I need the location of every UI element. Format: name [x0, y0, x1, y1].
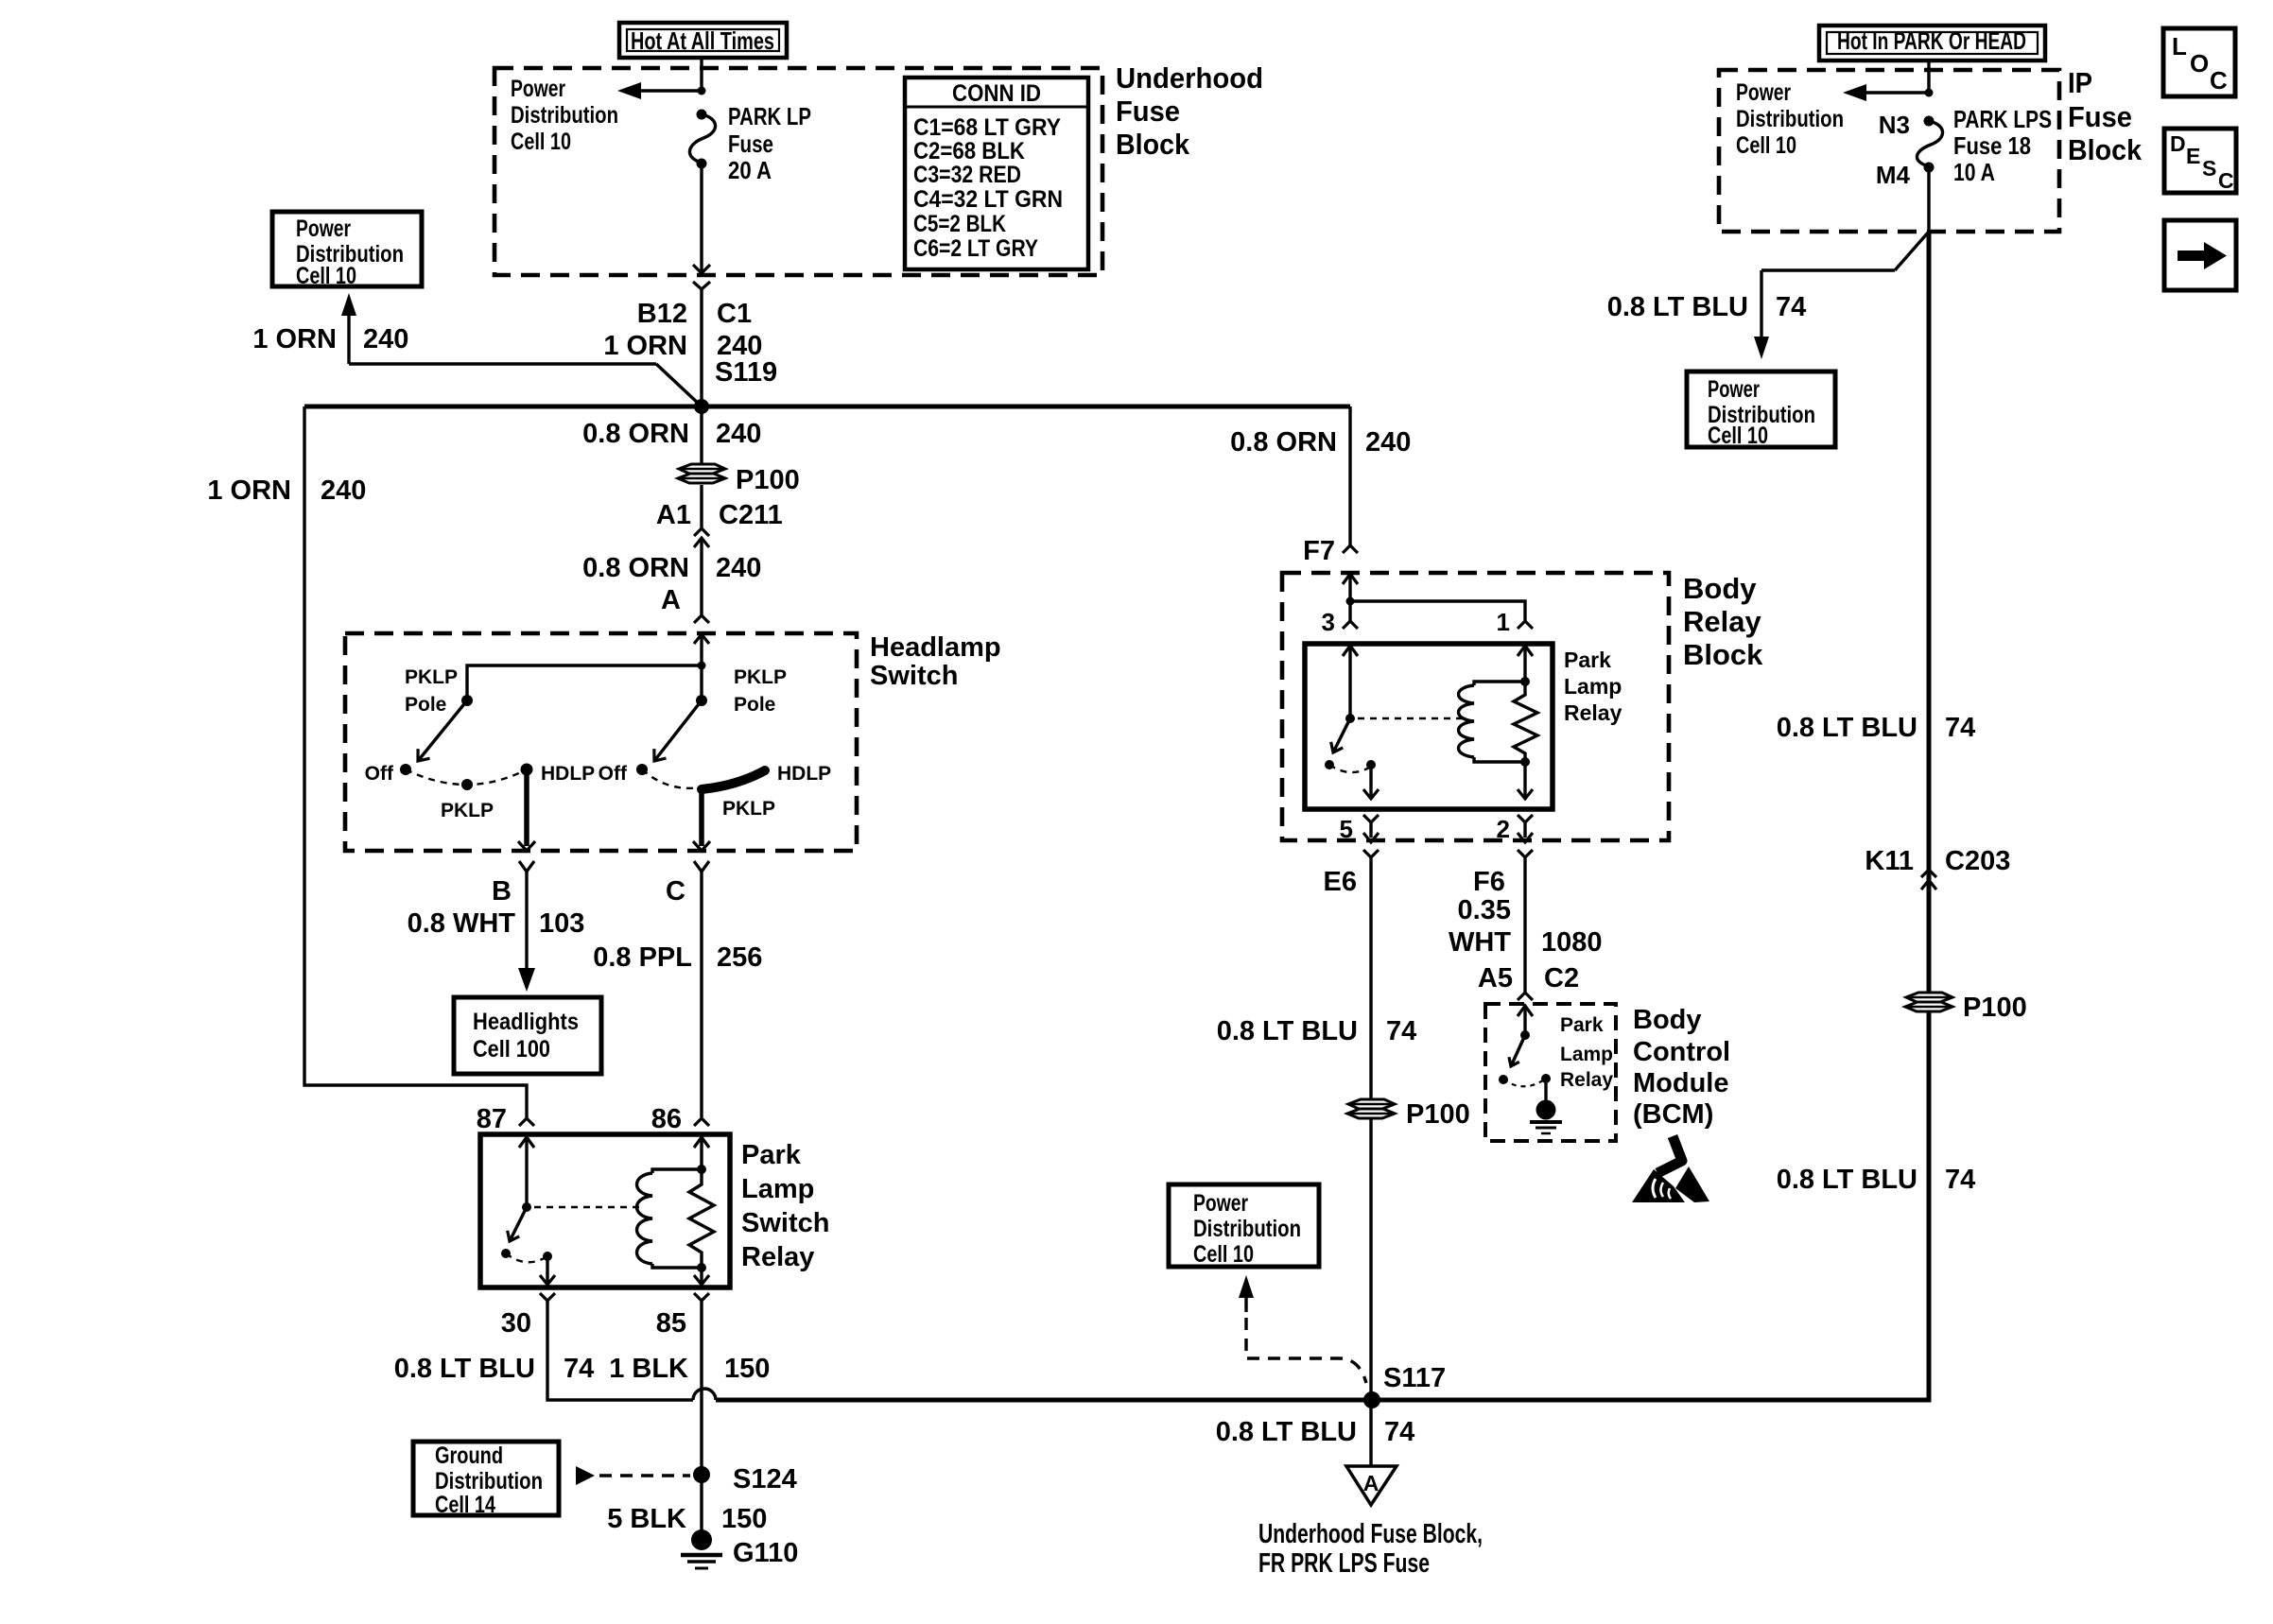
wire fuse to B12 exit	[700, 164, 703, 272]
svg-text:Power: Power	[1736, 79, 1791, 106]
pin arrow 2 inside relay	[1518, 789, 1533, 799]
label box "Hot At All Times"	[619, 23, 787, 58]
dashed arc right switch	[642, 769, 701, 788]
node Off contact (right)	[636, 764, 648, 775]
wire B12/C1 down to S119	[700, 289, 703, 406]
svg-text:Lamp: Lamp	[1564, 674, 1622, 699]
svg-text:K11: K11	[1865, 846, 1914, 876]
svg-text:103: 103	[539, 908, 584, 939]
svg-text:Power: Power	[1708, 376, 1760, 403]
pin fork 5	[1363, 815, 1379, 822]
wire label 0.8 LT BLU 74 (below S117)	[1216, 1417, 1415, 1447]
pin arrow 3 inside relay	[1343, 646, 1358, 656]
label Body Relay Block	[1683, 572, 1763, 671]
svg-text:A5: A5	[1478, 963, 1513, 993]
svg-text:Fuse: Fuse	[2068, 100, 2132, 133]
svg-text:Module: Module	[1633, 1068, 1729, 1098]
pin fork 30	[540, 1293, 555, 1301]
svg-text:M4: M4	[1876, 161, 1911, 189]
wire label 0.8 ORN 240 (second)	[582, 553, 761, 583]
svg-text:Underhood: Underhood	[1116, 61, 1263, 95]
svg-text:Control: Control	[1633, 1037, 1730, 1067]
node PKLP contact (left)	[461, 779, 473, 790]
ground (BCM internal)	[1530, 1100, 1562, 1134]
svg-text:Block: Block	[1683, 638, 1763, 671]
svg-text:P100: P100	[1963, 993, 2027, 1023]
pin arrow 1 inside relay	[1518, 646, 1533, 656]
switch blade PKLP selected (thick curve)	[702, 770, 765, 789]
wire B down to Headlights	[525, 872, 528, 970]
wire label 1 ORN 240 (left vertical)	[207, 475, 366, 506]
node right PKLP Pole dot	[696, 695, 707, 706]
pin fork F6	[1518, 850, 1533, 857]
box Power Distribution Cell 10 (right)	[1687, 371, 1835, 449]
node coil bottom junction (body relay)	[1520, 757, 1530, 767]
svg-text:10 A: 10 A	[1953, 158, 1995, 186]
pin arrow 5 inside relay	[1363, 789, 1379, 799]
note Underhood Fuse Block, FR PRK LPS Fuse	[1258, 1519, 1483, 1579]
wire to left pole	[467, 665, 702, 700]
node pole feed junction	[698, 662, 706, 670]
node junction at IP fuse feed	[1925, 89, 1934, 97]
svg-text:Cell 10: Cell 10	[1193, 1241, 1254, 1268]
svg-text:74: 74	[1945, 1165, 1975, 1195]
svg-text:Power: Power	[511, 76, 565, 102]
wire label 0.8 LT BLU 74 (right riser bottom)	[1777, 1165, 1976, 1195]
svg-text:PARK LP: PARK LP	[728, 102, 811, 130]
value label PARK LP Fuse 20 A	[728, 102, 811, 184]
svg-text:CONN ID: CONN ID	[952, 80, 1041, 107]
svg-text:2: 2	[1497, 815, 1510, 843]
svg-text:E: E	[2186, 144, 2200, 168]
wire HDLP contact down (selected, thick)	[524, 769, 529, 846]
pin fork B	[519, 861, 534, 872]
pin fork B12 below underhood box	[693, 282, 710, 289]
wire bus from S119 left and right	[304, 405, 1350, 409]
relay armature swing arm (body relay)	[1327, 718, 1350, 755]
svg-text:Relay: Relay	[1564, 700, 1622, 725]
dashed arc BCM contact	[1503, 1079, 1546, 1086]
svg-text:Block: Block	[2068, 133, 2143, 166]
wire label 0.8 ORN 240	[582, 419, 761, 449]
svg-text:P100: P100	[736, 465, 800, 495]
svg-text:Cell 10: Cell 10	[1736, 132, 1796, 159]
svg-text:C6=2 LT GRY: C6=2 LT GRY	[913, 235, 1038, 262]
svg-text:O: O	[2190, 49, 2209, 78]
svg-text:C5=2 BLK: C5=2 BLK	[913, 211, 1006, 237]
node BCM output contact	[1541, 1074, 1551, 1083]
node BCM contact left	[1499, 1075, 1508, 1084]
svg-text:PARK LPS: PARK LPS	[1953, 105, 2052, 133]
dashed arc relay contact (body relay)	[1329, 765, 1371, 772]
node S119 junction dot	[694, 399, 709, 414]
svg-text:C: C	[2218, 168, 2234, 193]
wire label 0.8 LT BLU 74 (E6)	[1217, 1016, 1417, 1046]
wire arrow to Power Distribution (IP)	[1843, 84, 1929, 101]
svg-text:N3: N3	[1879, 111, 1910, 139]
label box "Hot In PARK Or HEAD"	[1819, 26, 2045, 60]
svg-text:0.8 ORN: 0.8 ORN	[582, 553, 689, 583]
svg-text:C2=68 BLK: C2=68 BLK	[913, 138, 1025, 164]
svg-text:PKLP: PKLP	[441, 800, 494, 821]
svg-text:0.8 ORN: 0.8 ORN	[1230, 427, 1337, 458]
svg-text:Distribution: Distribution	[1193, 1216, 1301, 1242]
svg-text:Park: Park	[1560, 1014, 1604, 1036]
svg-text:Power: Power	[296, 216, 351, 242]
svg-text:A1: A1	[656, 500, 691, 530]
svg-text:74: 74	[1384, 1417, 1414, 1447]
text Power Distribution Cell 10 (IP)	[1736, 79, 1844, 159]
svg-text:Power: Power	[1193, 1190, 1248, 1217]
svg-text:74: 74	[1386, 1016, 1416, 1046]
node branch junction (pin3/pin1)	[1346, 597, 1355, 606]
box Ground Distribution Cell 14	[413, 1442, 559, 1518]
svg-text:A: A	[661, 585, 681, 615]
svg-text:1 ORN: 1 ORN	[603, 331, 687, 361]
dashed pointer S117 to Power Distribution	[1239, 1275, 1366, 1383]
svg-text:C: C	[666, 876, 685, 907]
connector C211 inline	[694, 528, 709, 547]
value label PARK LPS Fuse 18 10 A	[1953, 105, 2052, 186]
relay armature swing arm	[504, 1207, 527, 1244]
svg-text:S119: S119	[715, 357, 777, 388]
wire S119 down to P100	[700, 406, 703, 463]
svg-text:E6: E6	[1324, 867, 1357, 897]
connector A into headlamp switch	[694, 615, 709, 644]
relay coil inductor (body relay)	[1459, 682, 1526, 762]
svg-text:C2: C2	[1544, 963, 1579, 993]
dashed box Headlamp Switch	[345, 633, 857, 851]
svg-text:Cell 100: Cell 100	[473, 1036, 550, 1063]
svg-text:74: 74	[1776, 292, 1806, 322]
svg-text:150: 150	[724, 1354, 770, 1384]
svg-text:Underhood Fuse Block,: Underhood Fuse Block,	[1258, 1519, 1483, 1549]
node BCM pivot	[1520, 1030, 1530, 1040]
wire Hot In PARK into IP fuse block	[1927, 60, 1930, 93]
svg-text:C203: C203	[1945, 846, 2010, 876]
wire coil to pin 2	[1523, 762, 1526, 798]
node S117	[1363, 1391, 1380, 1408]
svg-text:Lamp: Lamp	[741, 1174, 814, 1204]
svg-text:Lamp: Lamp	[1560, 1044, 1613, 1065]
node coil top junction (body relay)	[1520, 677, 1530, 686]
svg-text:Fuse 18: Fuse 18	[1953, 131, 2031, 160]
relay coil (inductor)	[637, 1169, 703, 1268]
svg-text:150: 150	[721, 1504, 767, 1534]
svg-text:20 A: 20 A	[728, 156, 772, 184]
dashed pointer Ground Distribution to S124	[576, 1466, 690, 1485]
svg-text:240: 240	[716, 419, 761, 449]
pin arrow at headlamp switch exit B	[518, 841, 535, 851]
label Underhood Fuse Block	[1116, 61, 1263, 161]
svg-text:Off: Off	[599, 763, 628, 785]
pin arrow E6 at block edge	[1363, 833, 1379, 842]
label Body Control Module (BCM)	[1633, 1005, 1730, 1130]
relay dashed actuation link (body relay)	[1358, 717, 1467, 719]
label Park Lamp Relay (body relay block)	[1564, 648, 1622, 725]
svg-text:S117: S117	[1383, 1363, 1446, 1393]
wire label 5 BLK 150	[607, 1504, 767, 1534]
svg-text:A: A	[1363, 1471, 1379, 1495]
svg-text:0.8 LT BLU: 0.8 LT BLU	[394, 1354, 535, 1384]
svg-text:C3=32 RED: C3=32 RED	[913, 162, 1021, 188]
svg-text:0.8 LT BLU: 0.8 LT BLU	[1217, 1016, 1358, 1046]
svg-text:30: 30	[501, 1308, 531, 1339]
relay armature wire 87	[525, 1137, 528, 1207]
label PKLP Pole (right)	[734, 666, 787, 716]
connector triangle A (off-page to Underhood Fuse Block)	[1346, 1466, 1397, 1505]
table CONN ID	[905, 78, 1088, 269]
dashed box Body Relay Block	[1282, 573, 1669, 840]
wire arrow to Power Distribution (left)	[617, 82, 702, 99]
label Park Lamp Relay (BCM)	[1560, 1014, 1613, 1091]
svg-text:0.8 LT BLU: 0.8 LT BLU	[1216, 1417, 1357, 1447]
svg-text:3: 3	[1322, 608, 1335, 636]
wire fuse down out of IP block	[1927, 167, 1930, 232]
svg-text:Hot At All Times: Hot At All Times	[631, 26, 774, 55]
wire label 0.8 LT BLU 74 (branch)	[1607, 292, 1807, 322]
wire C211 to headlamp switch	[700, 538, 703, 615]
dashed box Body Control Module	[1485, 1004, 1616, 1141]
svg-text:1 BLK: 1 BLK	[609, 1354, 688, 1384]
wire label 1 BLK 150 (pin 85)	[609, 1354, 770, 1384]
wire 30 down and right to S117 (bus with hop)	[547, 1301, 1372, 1400]
wire contact to pin 5	[1369, 765, 1372, 798]
svg-text:Fuse: Fuse	[1116, 95, 1180, 128]
svg-text:Switch: Switch	[870, 661, 958, 691]
wire label 0.8 PPL 256	[593, 942, 762, 973]
svg-text:F6: F6	[1473, 867, 1505, 897]
pin arrow 30 inside relay	[540, 1275, 555, 1285]
connector grommet P100 (right)	[1905, 993, 1952, 1011]
svg-text:240: 240	[363, 324, 408, 354]
svg-text:G110: G110	[733, 1538, 798, 1568]
wire arrowhead into Headlights box	[518, 968, 535, 992]
symbol ESD sensitive device	[1632, 1136, 1709, 1202]
wire right PKLP down (thick)	[699, 787, 704, 846]
node left PKLP Pole dot	[461, 695, 473, 706]
svg-text:87: 87	[477, 1104, 507, 1134]
svg-text:Relay: Relay	[1560, 1069, 1613, 1091]
svg-text:1: 1	[1497, 608, 1510, 636]
svg-text:S124: S124	[733, 1464, 797, 1494]
node coil bottom junction	[697, 1263, 706, 1272]
wire E6 down to S117 and connector A	[1369, 857, 1372, 1466]
pin fork E6	[1363, 850, 1379, 857]
node relay output contact (body relay)	[1366, 760, 1376, 769]
wire left vertical 1 ORN 240	[304, 406, 527, 1117]
svg-text:Distribution: Distribution	[1736, 106, 1844, 132]
ground G110	[681, 1529, 722, 1568]
node junction at fuse top feed	[698, 87, 706, 95]
svg-text:85: 85	[656, 1308, 686, 1339]
pin arrow into BCM	[1518, 1006, 1533, 1016]
svg-text:L: L	[2172, 32, 2187, 60]
svg-text:Distribution: Distribution	[435, 1468, 543, 1494]
svg-text:0.8 PPL: 0.8 PPL	[593, 942, 692, 973]
svg-text:Body: Body	[1633, 1005, 1702, 1035]
pin label A1 | C211	[656, 500, 783, 530]
dashed arc left switch	[406, 769, 527, 785]
svg-text:PKLP: PKLP	[405, 666, 458, 688]
svg-text:C4=32 LT GRN: C4=32 LT GRN	[913, 186, 1063, 213]
svg-text:74: 74	[564, 1354, 594, 1384]
svg-text:240: 240	[1365, 427, 1411, 458]
svg-text:B12: B12	[637, 299, 687, 329]
relay resistor	[689, 1169, 714, 1268]
text Power Distribution Cell 10 (underhood)	[511, 76, 618, 155]
svg-text:HDLP: HDLP	[777, 763, 831, 785]
wire contact to pin 30	[546, 1256, 548, 1284]
svg-text:(BCM): (BCM)	[1633, 1099, 1713, 1130]
label Park Lamp Switch Relay	[741, 1140, 829, 1272]
svg-text:C1=68 LT GRY: C1=68 LT GRY	[913, 114, 1061, 141]
wire junction to pin 1	[1350, 601, 1525, 621]
svg-text:Headlamp: Headlamp	[870, 632, 1001, 663]
node armature contact (left)	[501, 1249, 511, 1258]
node coil top junction	[697, 1165, 706, 1174]
svg-text:Ground: Ground	[435, 1443, 503, 1469]
node HDLP contact (left)	[521, 764, 533, 776]
box Power Distribution Cell 10 (middle)	[1169, 1184, 1319, 1268]
pin arrow 86 inside relay	[694, 1137, 709, 1148]
label PKLP Pole (left)	[405, 666, 458, 716]
svg-text:B: B	[492, 876, 512, 907]
relay coil feed wire	[700, 1137, 703, 1169]
pin arrow 85 inside relay	[694, 1275, 709, 1285]
svg-text:240: 240	[321, 475, 366, 506]
wire label 0.8 WHT 103	[408, 908, 585, 939]
svg-text:F7: F7	[1303, 536, 1335, 566]
svg-text:Cell 14: Cell 14	[435, 1492, 495, 1518]
wire label 1 ORN 240 (branch)	[252, 324, 408, 354]
svg-text:Headlights: Headlights	[473, 1009, 579, 1035]
svg-text:0.8 WHT: 0.8 WHT	[408, 908, 516, 939]
switch arm left pole	[412, 700, 467, 766]
node armature contact (body relay)	[1325, 760, 1334, 769]
pin fork 87	[519, 1118, 534, 1126]
pin arrow 87 inside relay	[519, 1137, 534, 1148]
legend box LOC	[2163, 28, 2235, 96]
label Headlamp Switch	[870, 632, 1001, 691]
svg-text:Hot In PARK Or HEAD: Hot In PARK Or HEAD	[1837, 26, 2026, 55]
svg-text:Cell 10: Cell 10	[511, 129, 571, 155]
legend box arrow	[2164, 220, 2236, 290]
node armature pivot (body relay)	[1345, 714, 1355, 723]
dashed arc relay contact	[506, 1253, 547, 1262]
svg-text:0.8 ORN: 0.8 ORN	[582, 419, 689, 449]
wire branch diagonal to right power distribution	[1754, 232, 1929, 359]
svg-text:PKLP: PKLP	[734, 666, 787, 688]
pin label A5 | C2	[1478, 963, 1579, 993]
wire label 1 ORN 240	[603, 331, 762, 361]
svg-text:74: 74	[1945, 713, 1975, 743]
svg-text:Park: Park	[741, 1140, 802, 1170]
pin fork 85	[694, 1293, 709, 1301]
wire BCM contact to ground	[1544, 1079, 1547, 1103]
relay coil feed wire (body relay)	[1523, 646, 1526, 682]
svg-text:0.8 LT BLU: 0.8 LT BLU	[1607, 292, 1748, 322]
pin fork C	[694, 861, 709, 872]
connector grommet P100 (left)	[678, 464, 725, 483]
svg-text:1 ORN: 1 ORN	[207, 475, 291, 506]
fuse PARK LPS Fuse 18 10 A	[1917, 116, 1942, 173]
svg-text:0.8 LT BLU: 0.8 LT BLU	[1777, 1165, 1917, 1195]
svg-text:86: 86	[651, 1104, 682, 1134]
pin label B12 | C1	[637, 299, 752, 329]
wire from Hot At All Times into Underhood Fuse Block	[700, 58, 703, 91]
pin fork 86	[694, 1118, 709, 1126]
relay resistor (body relay)	[1514, 682, 1537, 762]
wire label 0.8 ORN 240 (to F7)	[1230, 427, 1411, 458]
BCM switch wire	[1523, 1006, 1526, 1035]
svg-text:5 BLK: 5 BLK	[607, 1504, 686, 1534]
svg-text:C1: C1	[717, 299, 752, 329]
pin arrow F6 at block edge	[1518, 833, 1533, 842]
wire 85 down to ground	[700, 1301, 703, 1533]
svg-text:FR PRK LPS Fuse: FR PRK LPS Fuse	[1258, 1548, 1430, 1579]
svg-text:Fuse: Fuse	[728, 130, 773, 158]
node armature pivot	[522, 1202, 531, 1212]
wire inside headlamp switch top	[700, 634, 703, 700]
pin label K11 | C203	[1865, 846, 2010, 876]
relay box Park Lamp Switch Relay	[480, 1134, 730, 1287]
connector grommet P100 (middle)	[1347, 1099, 1395, 1118]
pin fork 3	[1343, 621, 1358, 629]
svg-text:Pole: Pole	[734, 694, 775, 716]
pin fork 1	[1518, 621, 1533, 629]
svg-text:IP: IP	[2068, 66, 2092, 99]
svg-text:Pole: Pole	[405, 694, 446, 716]
svg-text:Relay: Relay	[741, 1242, 814, 1272]
wire bus1 right corner down to F7	[1348, 406, 1351, 545]
svg-text:C: C	[2210, 66, 2228, 95]
svg-text:0.35: 0.35	[1458, 895, 1511, 925]
svg-text:Switch: Switch	[741, 1208, 829, 1238]
svg-text:Off: Off	[365, 763, 394, 785]
pin fork F7	[1343, 545, 1358, 553]
wire 2 to block edge	[1523, 822, 1526, 838]
dashed box Underhood Fuse Block	[495, 68, 1102, 275]
svg-text:P100: P100	[1406, 1099, 1470, 1130]
svg-text:Body: Body	[1683, 572, 1757, 605]
svg-text:Distribution: Distribution	[511, 102, 618, 129]
svg-text:1080: 1080	[1541, 927, 1603, 958]
connector C203 inline	[1921, 870, 1936, 890]
svg-text:Cell 10: Cell 10	[296, 263, 356, 289]
wire P100 to C211	[700, 485, 703, 528]
svg-text:Park: Park	[1564, 648, 1611, 672]
switch arm right pole	[649, 700, 702, 766]
wire coil to pin 85	[700, 1268, 703, 1284]
svg-text:Relay: Relay	[1683, 605, 1761, 638]
svg-text:1 ORN: 1 ORN	[252, 324, 337, 354]
dashed box IP Fuse Block	[1719, 70, 2059, 232]
node Off contact (left)	[400, 764, 411, 775]
node S124	[693, 1466, 710, 1483]
wire label 0.8 LT BLU 74 (pin 30)	[394, 1354, 595, 1384]
wire F7 to junction	[1348, 574, 1351, 621]
wire C down to relay 86	[700, 872, 703, 1117]
svg-text:S: S	[2202, 156, 2216, 181]
svg-text:Block: Block	[1116, 128, 1190, 161]
svg-text:D: D	[2170, 131, 2186, 156]
relay armature wire pin3	[1348, 646, 1351, 718]
pin arrow at headlamp switch exit C	[693, 841, 710, 851]
legend box DESC	[2164, 129, 2236, 193]
pin fork 2	[1518, 815, 1533, 822]
relay dashed actuation link	[534, 1206, 641, 1208]
